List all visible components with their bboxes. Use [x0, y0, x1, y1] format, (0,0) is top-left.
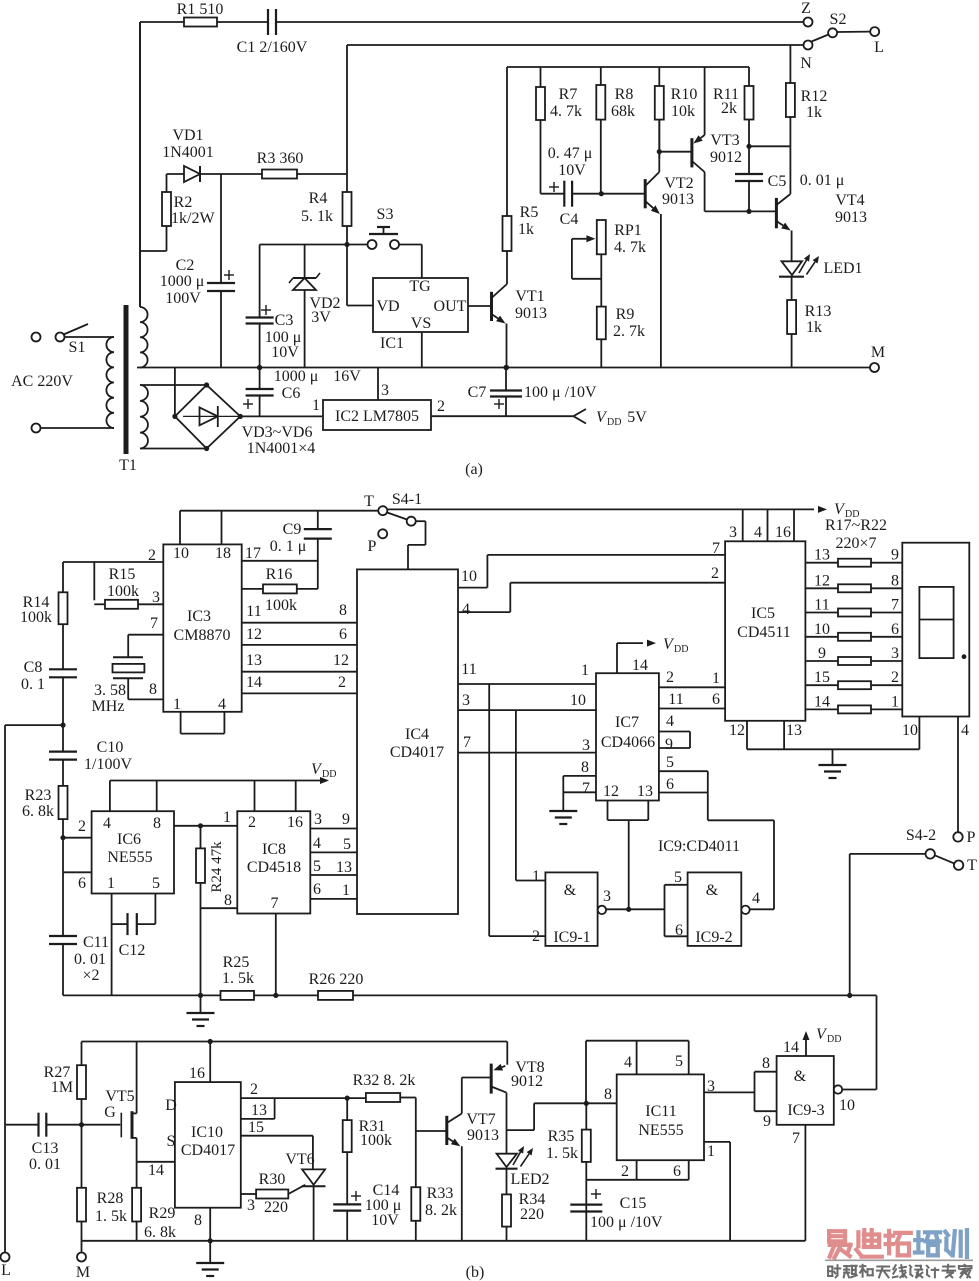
svg-text:S2: S2 [830, 11, 847, 28]
resistor R11 [713, 67, 754, 146]
wire IC8 pin6 to IC4 pin1 [310, 881, 357, 899]
resistor R13 [787, 300, 831, 368]
svg-text:14: 14 [148, 1162, 164, 1179]
svg-text:VT1: VT1 [515, 288, 544, 305]
svg-text:2: 2 [666, 669, 674, 686]
svg-text:1: 1 [312, 397, 320, 414]
capacitor C2 [160, 174, 235, 368]
svg-text:6: 6 [673, 1163, 681, 1180]
svg-text:&: & [706, 882, 719, 899]
svg-text:&: & [794, 1068, 807, 1085]
wire node A row [260, 244, 368, 246]
svg-text:R26 220: R26 220 [309, 971, 364, 988]
resistor R21x ladder row 9-3 [805, 645, 902, 665]
svg-text:3. 58: 3. 58 [94, 682, 126, 699]
wire IC11 top bracket [586, 1041, 689, 1104]
svg-text:2: 2 [248, 814, 256, 831]
svg-text:14: 14 [783, 1039, 799, 1056]
wire IC3 pin2 net [63, 562, 163, 600]
label (b) [466, 1264, 485, 1281]
junction VT1 emitter rail [504, 365, 509, 370]
wire IC6 pin1 [111, 894, 113, 996]
svg-text:8: 8 [224, 892, 232, 909]
resistor R26 [309, 971, 364, 1000]
svg-text:DD: DD [607, 417, 621, 428]
transistor VT4 [776, 192, 867, 261]
transformer T1 secondary winding upper [140, 22, 148, 368]
resistor R18x ladder row 12-8 [805, 572, 902, 592]
svg-text:1000 μ: 1000 μ [160, 273, 205, 290]
wire S3 to TG pin [399, 245, 422, 279]
IC IC5 CD4511 [725, 541, 805, 721]
capacitor C5 [735, 146, 844, 211]
svg-text:9013: 9013 [467, 1127, 499, 1144]
svg-text:7: 7 [271, 895, 279, 912]
svg-text:3: 3 [582, 737, 590, 754]
svg-text:S3: S3 [377, 206, 394, 223]
wire VD1 cathode to R3 [221, 173, 262, 175]
wire IC1 VD pin to node A [347, 245, 373, 306]
svg-text:0. 01: 0. 01 [74, 951, 106, 968]
svg-text:10: 10 [570, 692, 586, 709]
resistor R30 [256, 1171, 288, 1216]
svg-text:DD: DD [827, 1034, 841, 1045]
svg-text:R24 47k: R24 47k [209, 841, 225, 893]
svg-text:3: 3 [707, 1078, 715, 1095]
resistor R3 [257, 150, 304, 179]
wire IC4 pin3 branch to IC9-1 pin1 [516, 710, 546, 880]
junction IC10 pin8 rail [208, 1238, 213, 1243]
svg-text:L: L [874, 39, 884, 56]
resistor R29 [132, 1162, 176, 1241]
resistor R9 [597, 306, 645, 368]
svg-text:3: 3 [247, 1197, 255, 1214]
svg-text:C8: C8 [24, 659, 43, 676]
svg-text:10: 10 [173, 545, 189, 562]
svg-text:12: 12 [246, 626, 262, 643]
terminal N [800, 41, 812, 73]
resistor R19x ladder row 11-7 [805, 597, 902, 617]
resistor R34 [502, 1191, 545, 1241]
wire IC8 pin7 [275, 914, 277, 996]
svg-text:4: 4 [103, 815, 111, 832]
svg-text:10k: 10k [671, 103, 695, 120]
svg-text:2: 2 [891, 669, 899, 686]
wire IC3 pin14 to IC4 pin2 [242, 674, 357, 693]
svg-text:1k/2W: 1k/2W [171, 210, 215, 227]
junction C8-C10 node [60, 723, 65, 728]
svg-text:10: 10 [839, 1097, 855, 1114]
svg-text:R15: R15 [109, 566, 136, 583]
svg-text:16: 16 [775, 524, 791, 541]
svg-text:5: 5 [666, 754, 674, 771]
svg-text:R5: R5 [520, 204, 539, 221]
display digit (7-segment) [902, 543, 969, 739]
LED LED2 [496, 1146, 550, 1194]
svg-text:16: 16 [287, 814, 303, 831]
junction C3 bottom [257, 365, 262, 370]
svg-text:7: 7 [582, 780, 590, 797]
junction R31 top [345, 1096, 350, 1101]
svg-text:15: 15 [814, 669, 830, 686]
resistor R14 [20, 562, 68, 669]
svg-text:C7: C7 [468, 384, 487, 401]
svg-text:IC11: IC11 [645, 1103, 676, 1120]
svg-text:9: 9 [665, 736, 673, 753]
wire IC10 pin13 loop [241, 1098, 275, 1119]
wire IC9-2 input bracket [665, 885, 688, 937]
svg-text:(a): (a) [465, 461, 483, 478]
svg-text:5: 5 [674, 869, 682, 886]
svg-text:3: 3 [729, 524, 737, 541]
svg-text:4: 4 [666, 713, 674, 730]
ground under IC5 [819, 749, 847, 778]
wire IC9-3 input bracket [755, 1072, 777, 1112]
svg-text:CD4518: CD4518 [247, 859, 301, 876]
svg-text:C6: C6 [282, 385, 301, 402]
svg-text:1000 μ: 1000 μ [274, 368, 319, 385]
wire IC4 pin11 branch to IC9-1 pin2 [489, 684, 545, 936]
svg-text:IC1: IC1 [380, 335, 404, 352]
svg-text:13: 13 [786, 722, 802, 739]
LED LED1 [779, 254, 863, 300]
svg-text:0. 1 μ: 0. 1 μ [270, 538, 307, 555]
svg-text:8: 8 [339, 602, 347, 619]
wire IC11 pin3 to IC9-3 [704, 1078, 755, 1095]
bridge rectifier VD3~VD6 [172, 382, 315, 457]
svg-text:T: T [364, 493, 374, 510]
junction C4-R8 node [599, 191, 604, 196]
svg-text:VD: VD [376, 298, 399, 315]
transistor VT1 [492, 251, 548, 368]
svg-text:10V: 10V [371, 1212, 399, 1229]
wire lower secondary bottom lead [140, 448, 207, 450]
svg-text:1: 1 [107, 875, 115, 892]
wire IC1 VS pin to rail [421, 332, 423, 368]
resistor R22x ladder row 14-1 [805, 693, 902, 713]
label VT5 drain source [165, 1097, 177, 1150]
svg-text:R9: R9 [616, 306, 635, 323]
svg-text:NE555: NE555 [638, 1122, 683, 1139]
wire IC7 pin11 to IC5 pin6 [659, 691, 725, 709]
gate IC9-3 [762, 1055, 855, 1130]
svg-text:C13: C13 [32, 1140, 59, 1157]
wire IC7 pin6 [659, 776, 708, 793]
wire IC10 pin8 and ground [194, 1208, 224, 1276]
svg-text:100k: 100k [107, 583, 139, 600]
wire IC10 pin14 [137, 1162, 175, 1179]
capacitor C13 [5, 1113, 120, 1173]
resistor R25 [221, 954, 255, 1000]
wire top net Z (from left rail to Z terminal) [140, 21, 803, 23]
svg-text:5: 5 [343, 836, 351, 853]
svg-text:11: 11 [246, 603, 261, 620]
svg-text:R4: R4 [309, 190, 328, 207]
svg-text:0. 01: 0. 01 [29, 1156, 61, 1173]
svg-text:IC9:CD4011: IC9:CD4011 [658, 838, 740, 855]
svg-text:100 μ /10V: 100 μ /10V [590, 1214, 663, 1231]
svg-text:IC5: IC5 [751, 605, 775, 622]
svg-text:9013: 9013 [662, 191, 694, 208]
svg-text:DD: DD [322, 769, 336, 780]
svg-text:2: 2 [250, 1081, 258, 1098]
svg-text:9: 9 [763, 1113, 771, 1130]
svg-text:R23: R23 [25, 787, 52, 804]
svg-text:10: 10 [461, 568, 477, 585]
wire IC6 pin6 [63, 838, 92, 892]
svg-text:3: 3 [314, 811, 322, 828]
thyristor VT6 [285, 1151, 325, 1241]
watermark text [825, 1230, 973, 1277]
wire IC7 pin4-9 loop [659, 713, 690, 753]
svg-text:220×7: 220×7 [835, 535, 876, 552]
wire IC7 pin5/6 to IC9-2 output [708, 771, 774, 909]
svg-text:4: 4 [624, 1054, 632, 1071]
junction C6 rail [257, 365, 262, 370]
svg-text:8: 8 [581, 759, 589, 776]
transistor VT7 [447, 1078, 499, 1241]
svg-text:8: 8 [153, 815, 161, 832]
svg-text:4. 7k: 4. 7k [550, 103, 582, 120]
wire IC10 pin16 [189, 1042, 210, 1083]
crystal 3.58MHz [92, 615, 164, 715]
transistor VT3 [692, 67, 742, 211]
svg-text:2. 7k: 2. 7k [613, 323, 645, 340]
junction R23 pin2 [60, 835, 65, 840]
transformer T1 secondary winding lower [140, 385, 148, 449]
svg-text:LED2: LED2 [510, 1171, 549, 1188]
svg-text:IC6: IC6 [117, 831, 141, 848]
svg-text:2k: 2k [721, 100, 737, 117]
wire IC6 pin3 to IC8 pin1 [174, 809, 237, 826]
svg-text:9012: 9012 [710, 149, 742, 166]
svg-text:9: 9 [891, 547, 899, 564]
transistor VT8 (PNP) [462, 1042, 545, 1154]
svg-text:4: 4 [313, 835, 321, 852]
svg-text:C11: C11 [83, 934, 109, 951]
wire R4 to node A [346, 226, 348, 245]
svg-text:13: 13 [251, 1102, 267, 1119]
svg-text:2: 2 [338, 674, 346, 691]
svg-text:R2: R2 [174, 194, 193, 211]
svg-text:1/100V: 1/100V [84, 756, 132, 773]
svg-text:4: 4 [752, 890, 760, 907]
svg-text:6: 6 [313, 881, 321, 898]
svg-text:NE555: NE555 [107, 849, 152, 866]
wire IC3 bottom bracket [181, 712, 225, 734]
wire IC10 pin3 [241, 1194, 256, 1214]
svg-text:220: 220 [520, 1206, 544, 1223]
svg-text:R13: R13 [805, 303, 832, 320]
svg-text:OUT: OUT [434, 298, 467, 315]
wire IC8 pin16 [295, 781, 297, 812]
svg-text:C15: C15 [620, 1195, 647, 1212]
svg-text:4. 7k: 4. 7k [614, 239, 646, 256]
svg-text:1k: 1k [806, 319, 822, 336]
terminal M (bottom) [76, 1241, 90, 1281]
svg-text:VT6: VT6 [285, 1151, 314, 1168]
svg-text:16: 16 [189, 1065, 205, 1082]
svg-text:R30: R30 [259, 1171, 286, 1188]
capacitor C7 [468, 368, 597, 417]
svg-text:R25: R25 [223, 954, 250, 971]
svg-text:6. 8k: 6. 8k [144, 1224, 176, 1241]
label (a) [465, 461, 483, 478]
svg-text:2: 2 [78, 818, 86, 835]
svg-text:R35: R35 [548, 1128, 575, 1145]
wire vertical x347 (N wire to R4) [346, 45, 348, 192]
regulator IC2 LM7805 [323, 400, 431, 430]
svg-text:5. 1k: 5. 1k [301, 208, 333, 225]
svg-text:VT7: VT7 [466, 1111, 495, 1128]
svg-text:1: 1 [891, 693, 899, 710]
wire IC8 pin4 to IC4 pin5 [310, 835, 357, 853]
svg-text:6: 6 [675, 922, 683, 939]
wire IC1 OUT to VT1 base [468, 305, 491, 307]
potentiometer RP1 [572, 220, 646, 307]
svg-text:7: 7 [891, 597, 899, 614]
svg-text:1. 5k: 1. 5k [95, 1208, 127, 1225]
junction R27 C13 gate [79, 1122, 84, 1127]
wire IC5 pin12-13 bottom bracket [729, 721, 919, 750]
svg-text:3: 3 [381, 382, 389, 399]
svg-text:11: 11 [461, 661, 476, 678]
svg-text:D: D [165, 1097, 177, 1114]
svg-text:1N4001×4: 1N4001×4 [247, 440, 316, 457]
svg-text:6. 8k: 6. 8k [22, 803, 54, 820]
IC IC10 CD4017 [175, 1082, 241, 1208]
switch S2 [812, 11, 871, 42]
svg-text:5: 5 [152, 875, 160, 892]
svg-text:13: 13 [336, 859, 352, 876]
svg-text:R17~R22: R17~R22 [825, 517, 887, 534]
wire supply rail y67 [507, 66, 749, 68]
svg-text:10V: 10V [271, 344, 299, 361]
resistor R1 [177, 1, 224, 27]
junction IC7 bracket output [626, 907, 631, 912]
svg-text:1k: 1k [518, 221, 534, 238]
wire bridge left vertex to rail [174, 368, 176, 417]
svg-text:5V: 5V [627, 409, 647, 426]
svg-text:7: 7 [463, 734, 471, 751]
FET VT5 [104, 1042, 136, 1162]
wire IC8 pin3 to IC4 pin9 [310, 811, 357, 829]
wire IC6 pin2 [63, 818, 92, 838]
svg-text:17: 17 [245, 545, 261, 562]
junction R24 top [198, 823, 203, 828]
svg-text:4: 4 [754, 524, 762, 541]
svg-text:6: 6 [712, 691, 720, 708]
resistor R31 [343, 1098, 392, 1204]
svg-text:C5: C5 [768, 173, 787, 190]
switch S4-1 [364, 491, 425, 569]
svg-text:LED1: LED1 [823, 260, 862, 277]
svg-text:VD1: VD1 [172, 127, 203, 144]
svg-text:10: 10 [902, 722, 918, 739]
node VDD 5V output arrow [573, 409, 647, 428]
svg-text:M: M [871, 344, 885, 361]
wire IC11 pin8 [586, 1086, 616, 1103]
wire IC10 pin15 to VT6 [241, 1119, 313, 1169]
resistor R33 [411, 1131, 457, 1241]
resistor R35 [546, 1103, 591, 1241]
svg-text:9012: 9012 [511, 1073, 543, 1090]
diode VD1 [162, 127, 221, 182]
svg-text:×2: ×2 [82, 967, 99, 984]
IC IC8 CD4518 [237, 811, 310, 913]
svg-text:CD4066: CD4066 [601, 734, 655, 751]
resistor R17x ladder row 13-9 [805, 547, 902, 567]
svg-text:2: 2 [711, 565, 719, 582]
transformer T1 core [119, 305, 137, 474]
wire IC2 pin2 output [431, 398, 573, 416]
svg-text:9013: 9013 [835, 209, 867, 226]
svg-text:CM8870: CM8870 [174, 627, 231, 644]
capacitor C8 [21, 659, 77, 725]
svg-text:9: 9 [818, 645, 826, 662]
svg-text:IC9-2: IC9-2 [695, 929, 732, 946]
svg-text:R1 510: R1 510 [177, 1, 224, 18]
wire IC8 pin5 to IC4 pin13 [310, 858, 357, 876]
transformer T1 primary winding [106, 337, 114, 428]
label pin1 IC2 [312, 397, 320, 414]
svg-text:TG: TG [409, 278, 431, 295]
wire IC6 pin5 [154, 894, 156, 925]
svg-text:15: 15 [248, 1119, 264, 1136]
capacitor C11 [49, 872, 109, 995]
svg-text:8: 8 [891, 572, 899, 589]
svg-text:R28: R28 [97, 1190, 124, 1207]
svg-text:IC7: IC7 [615, 714, 639, 731]
svg-text:C4: C4 [560, 211, 579, 228]
wire to left net L [5, 725, 63, 1252]
wire R32 to VT7 base [400, 1098, 446, 1132]
svg-text:8: 8 [149, 681, 157, 698]
resistor R8 [596, 67, 635, 194]
wire IC7 pin5 [659, 754, 708, 771]
gate IC9-1 [532, 868, 611, 946]
svg-text:2: 2 [148, 547, 156, 564]
resistor R27 [44, 1042, 86, 1125]
resistor R23 [22, 786, 68, 838]
resistor R32 [353, 1072, 416, 1102]
node A junction [344, 242, 349, 247]
svg-text:P: P [967, 829, 976, 846]
resistor R5 [503, 67, 539, 251]
svg-text:1M: 1M [51, 1079, 73, 1096]
svg-text:0. 47 μ: 0. 47 μ [548, 145, 593, 162]
wire R11-R12 node row [749, 145, 790, 147]
svg-text:VT2: VT2 [664, 175, 693, 192]
label IC3 pin2 [148, 547, 156, 564]
svg-text:R33: R33 [427, 1185, 454, 1202]
svg-text:7: 7 [712, 540, 720, 557]
svg-text:VT3: VT3 [710, 132, 739, 149]
resistor R2 [140, 174, 215, 251]
switch S3 [368, 206, 400, 249]
wire IC5 pin3 [729, 509, 743, 541]
wire section-a bottom rail [137, 367, 870, 369]
wire IC5 pin16 [775, 509, 794, 541]
capacitor C1 [237, 9, 308, 56]
svg-text:2: 2 [437, 398, 445, 415]
IC IC3 CM8870 [163, 544, 241, 713]
svg-text:11: 11 [668, 691, 683, 708]
svg-text:9013: 9013 [515, 305, 547, 322]
svg-text:M: M [76, 1264, 90, 1281]
wire IC3 pin12 to IC4 pin6 [242, 626, 357, 645]
svg-text:7: 7 [150, 615, 158, 632]
